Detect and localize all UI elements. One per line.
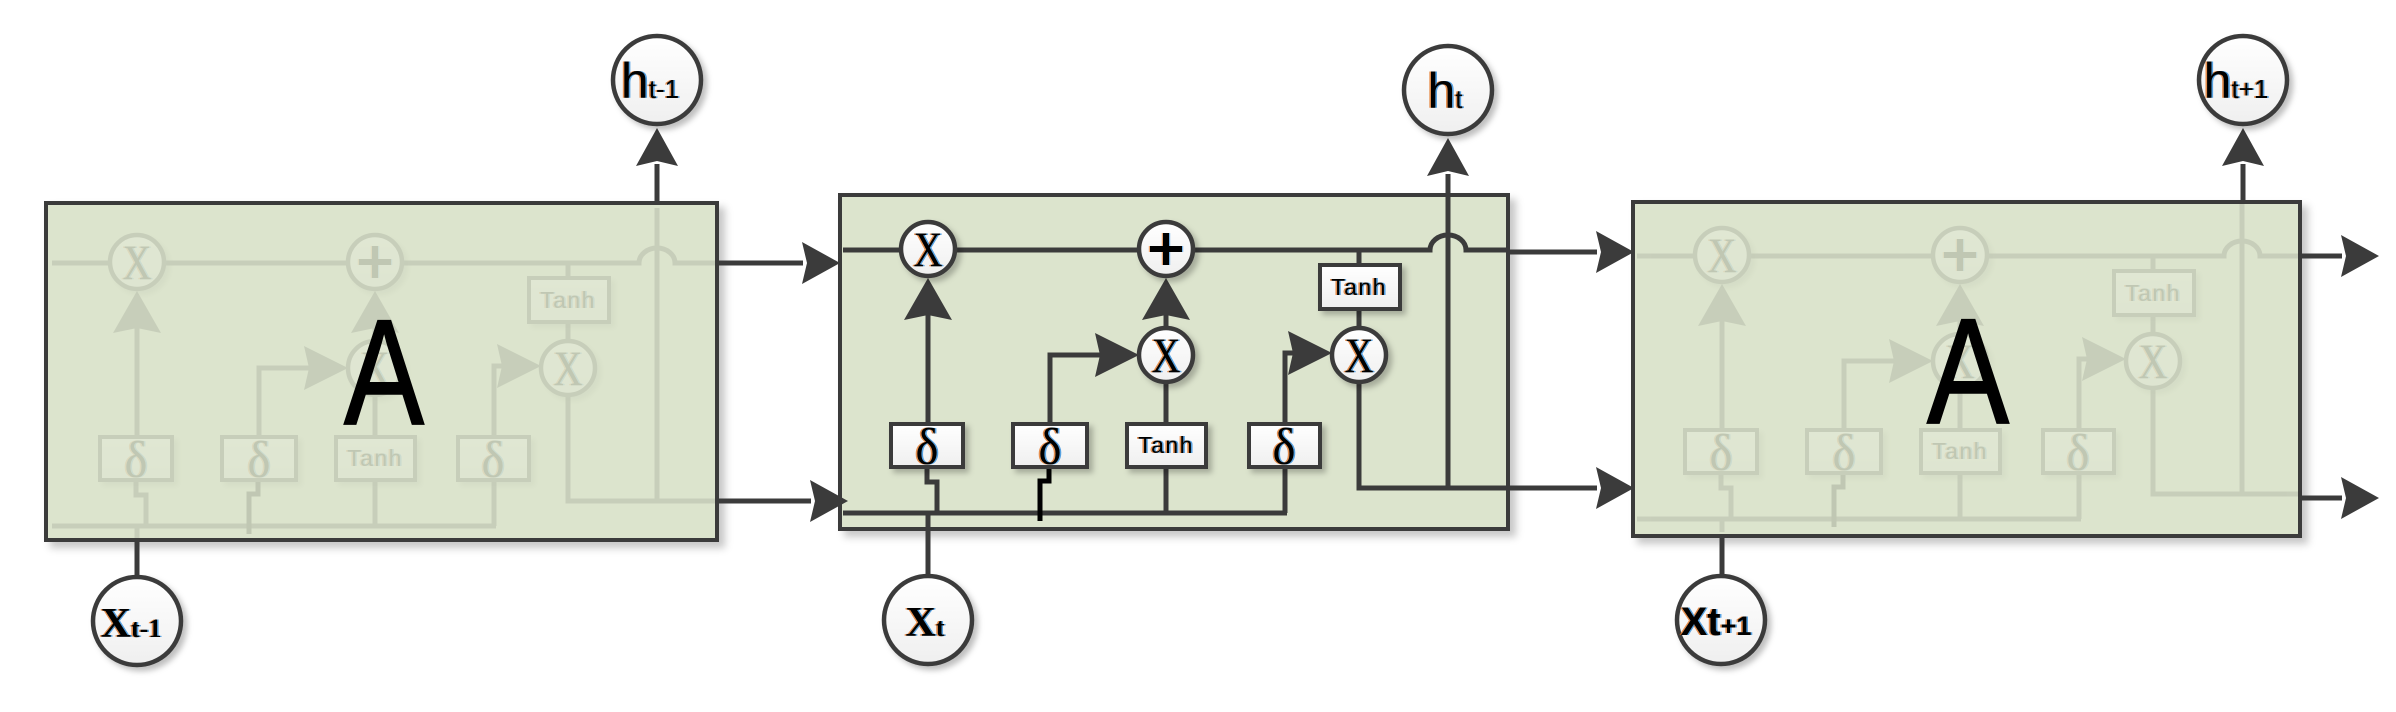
wire from x(t) — [926, 524, 931, 575]
LSTM cell block t-1 — [46, 203, 717, 540]
node x(t+1) circle — [1677, 576, 1765, 664]
faded internals t+1 — [1637, 201, 2302, 532]
wire lower left-to-middle — [717, 499, 811, 504]
wire upper left-to-middle — [717, 261, 803, 266]
arrowhead to h(t-1) — [636, 128, 678, 166]
node h(t-1) circle — [613, 36, 701, 124]
wire to h(t) — [1446, 174, 1451, 195]
node h(t+1) circle — [2199, 36, 2287, 124]
arrowhead lower middle-to-right — [1596, 467, 1634, 509]
wire from x(t+1) — [1720, 536, 1725, 574]
wire upper middle-to-right — [1508, 250, 1597, 255]
wire to h(t+1) — [2241, 164, 2246, 202]
arrowhead upper left-to-middle — [802, 242, 840, 284]
wire from x(t-1) — [135, 540, 140, 576]
faded internals t-1 — [52, 208, 717, 539]
LSTM cell block t+1 — [1633, 202, 2300, 536]
internals t — [843, 195, 1508, 526]
wire lower middle-to-right — [1508, 486, 1597, 491]
arrowhead upper middle-to-right — [1596, 231, 1634, 273]
svg-text:A: A — [1927, 287, 2009, 455]
LSTM cell block t (detailed) — [840, 195, 1508, 529]
wire to h(t-1) — [655, 164, 660, 203]
arrowhead lower left-to-middle — [810, 480, 848, 522]
wire lower right-out — [2300, 496, 2342, 501]
arrowhead upper right-out — [2341, 235, 2379, 277]
arrowhead lower right-out — [2341, 477, 2379, 519]
arrowhead to h(t+1) — [2222, 128, 2264, 166]
node x(t) circle — [884, 576, 972, 664]
svg-text:A: A — [344, 288, 424, 456]
arrowhead to h(t) — [1427, 138, 1469, 176]
node x(t-1) circle — [93, 577, 181, 665]
node h(t) circle — [1404, 46, 1492, 134]
wire upper right-out — [2300, 254, 2342, 259]
